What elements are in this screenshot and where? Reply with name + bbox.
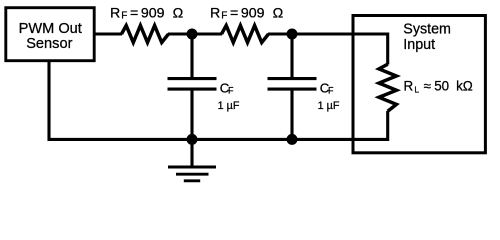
- svg-text:System: System: [403, 22, 451, 38]
- svg-text:=: =: [230, 6, 238, 22]
- svg-text:Ω: Ω: [173, 6, 184, 22]
- svg-text:R: R: [110, 6, 120, 22]
- svg-text:F: F: [121, 11, 127, 22]
- svg-text:1 µF: 1 µF: [318, 100, 340, 112]
- svg-text:=: =: [130, 6, 138, 22]
- svg-text:Sensor: Sensor: [26, 36, 72, 52]
- svg-text:1 µF: 1 µF: [218, 100, 240, 112]
- svg-text:L: L: [414, 84, 419, 94]
- svg-text:50: 50: [434, 79, 449, 94]
- svg-text:F: F: [221, 11, 227, 22]
- svg-text:kΩ: kΩ: [456, 79, 473, 94]
- svg-text:909: 909: [141, 6, 165, 22]
- svg-text:909: 909: [241, 6, 265, 22]
- svg-text:R: R: [404, 79, 414, 94]
- svg-text:PWM Out: PWM Out: [19, 21, 82, 37]
- svg-text:≈: ≈: [424, 79, 431, 94]
- svg-text:F: F: [228, 85, 234, 95]
- svg-text:F: F: [328, 85, 334, 95]
- svg-text:R: R: [210, 6, 220, 22]
- svg-text:Input: Input: [403, 37, 435, 53]
- svg-text:Ω: Ω: [273, 6, 284, 22]
